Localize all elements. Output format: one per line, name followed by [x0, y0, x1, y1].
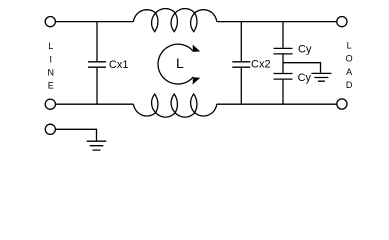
terminal load-top: [337, 17, 347, 27]
capacitor Cy lower lead: [282, 80, 284, 105]
wire bottom rail right: [217, 103, 337, 105]
ground chassis right: [311, 73, 331, 81]
svg-text:Cx1: Cx1: [109, 59, 129, 71]
flux arrowhead top: [193, 45, 201, 52]
ground earth left: [87, 141, 107, 150]
svg-text:A: A: [346, 67, 352, 77]
svg-text:Cy: Cy: [298, 44, 312, 56]
svg-text:L: L: [176, 55, 184, 71]
wire Cy midpoint to ground: [283, 63, 321, 73]
svg-text:O: O: [346, 54, 353, 64]
terminal ground: [45, 124, 55, 134]
capacitor Cx2 plates: [232, 62, 250, 67]
flux arrow arc top: [158, 44, 193, 64]
capacitor Cy upper lead: [282, 22, 284, 48]
svg-text:L: L: [347, 40, 352, 50]
svg-text:D: D: [346, 80, 353, 90]
wire Cy midpoint: [282, 55, 284, 73]
svg-text:Cx2: Cx2: [251, 59, 271, 71]
wire ground terminal: [55, 129, 96, 140]
inductor L top winding: [134, 9, 217, 32]
wire top rail right: [217, 21, 337, 23]
capacitor Cx1 bottom lead: [96, 68, 98, 104]
capacitor Cx2 top lead: [240, 22, 242, 62]
wire top rail left: [55, 21, 133, 23]
capacitor Cx1 top lead: [96, 22, 98, 62]
svg-text:Cy: Cy: [298, 72, 312, 84]
capacitor Cy lower plates: [274, 74, 293, 80]
svg-text:I: I: [50, 54, 53, 64]
terminal line-top: [45, 17, 55, 27]
terminal load-bottom: [337, 99, 347, 109]
flux arrow arc bottom: [158, 64, 193, 84]
capacitor Cy upper plates: [274, 48, 293, 54]
svg-text:N: N: [48, 68, 55, 78]
terminal line-bottom: [45, 99, 55, 109]
svg-text:E: E: [48, 81, 54, 91]
flux arrowhead bottom: [193, 77, 201, 84]
svg-text:L: L: [48, 41, 53, 51]
capacitor Cx1 plates: [88, 62, 106, 67]
wire bottom rail left: [55, 103, 133, 105]
inductor L bottom winding: [134, 94, 217, 117]
capacitor Cx2 bottom lead: [240, 68, 242, 104]
